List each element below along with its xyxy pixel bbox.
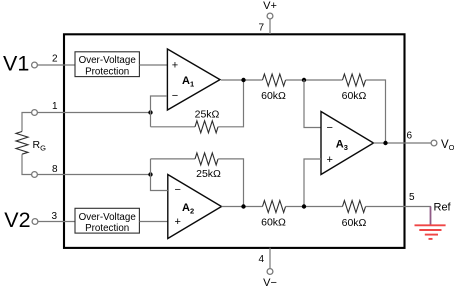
- svg-text:+: +: [172, 59, 178, 71]
- resistor 60k bottom-right: [343, 201, 366, 213]
- svg-text:60kΩ: 60kΩ: [261, 90, 286, 102]
- node A3 output: [383, 141, 387, 145]
- node A1 output: [241, 78, 245, 82]
- wire pin1: [37, 112, 150, 114]
- svg-text:V+: V+: [263, 0, 277, 12]
- resistor 60k top-left: [263, 74, 286, 86]
- svg-text:V2: V2: [4, 208, 30, 232]
- resistor 60k top-right: [343, 74, 366, 86]
- resistor 25k A1: [195, 121, 218, 133]
- svg-text:8: 8: [52, 164, 58, 175]
- op-amp A3: [321, 112, 374, 175]
- IC boundary box: [64, 34, 405, 248]
- svg-text:6: 6: [406, 131, 412, 142]
- wire A2 output: [222, 206, 263, 208]
- wire A3 noninverting input: [304, 159, 321, 207]
- node A2 output: [241, 204, 245, 208]
- svg-text:1: 1: [52, 101, 58, 112]
- svg-text:−: −: [327, 122, 333, 134]
- wire ref drop: [430, 207, 432, 226]
- svg-text:25kΩ: 25kΩ: [196, 168, 221, 180]
- wire RG top: [22, 113, 32, 132]
- node pin1 junction: [148, 110, 152, 114]
- wire 25k feedback left: [151, 126, 196, 128]
- wire A1 output: [221, 79, 263, 81]
- svg-text:V−: V−: [263, 277, 277, 289]
- svg-text:V1: V1: [3, 52, 29, 76]
- svg-text:60kΩ: 60kΩ: [342, 90, 367, 102]
- node X: [302, 78, 306, 82]
- pin 7 terminal V+: [267, 13, 273, 34]
- svg-text:60kΩ: 60kΩ: [261, 217, 286, 229]
- op-amp A1: [167, 49, 220, 110]
- wire A2 inverting input: [151, 159, 168, 191]
- wire A1 inverting input: [151, 96, 168, 127]
- svg-text:60kΩ: 60kΩ: [342, 217, 367, 229]
- svg-text:Protection: Protection: [85, 66, 129, 77]
- terminal VO: [431, 140, 437, 146]
- svg-text:25kΩ: 25kΩ: [195, 109, 220, 121]
- wire pin8: [37, 174, 150, 176]
- wire 25k feedback right: [218, 80, 243, 127]
- wire to node X: [286, 79, 343, 81]
- svg-text:−: −: [172, 90, 178, 102]
- terminal pin 1: [32, 110, 38, 116]
- terminal V2: [32, 219, 38, 225]
- resistor RG: [16, 132, 28, 155]
- wire 25k2 right: [218, 159, 243, 207]
- op-amp A2: [168, 175, 222, 239]
- wire OVP2 to A2 +: [139, 221, 167, 223]
- wire 60k to Ref: [366, 206, 431, 208]
- resistor 25k A2: [195, 153, 218, 165]
- svg-text:2: 2: [52, 54, 58, 65]
- wire pin3: [38, 221, 75, 223]
- ground Ref: [415, 225, 446, 239]
- wire RG bottom: [22, 154, 32, 174]
- wire pin2: [37, 64, 75, 66]
- svg-text:Ref: Ref: [434, 201, 452, 213]
- svg-text:Protection: Protection: [85, 223, 129, 234]
- wire OVP1 to A1 +: [139, 64, 167, 66]
- svg-text:Over-Voltage: Over-Voltage: [79, 55, 137, 66]
- node Y: [302, 204, 306, 208]
- svg-text:+: +: [175, 216, 181, 228]
- wire 25k2 left: [151, 158, 196, 160]
- svg-text:7: 7: [258, 23, 264, 34]
- terminal pin 8: [32, 172, 38, 178]
- node pin8 junction: [148, 172, 152, 176]
- over-voltage protection box 2: [75, 208, 139, 233]
- svg-text:−: −: [175, 184, 181, 196]
- terminal V1: [32, 62, 38, 68]
- pin 4 terminal V-: [267, 248, 273, 275]
- svg-text:4: 4: [258, 254, 264, 265]
- wire node X to A3 inverting input: [304, 80, 321, 128]
- svg-text:5: 5: [409, 192, 415, 203]
- svg-text:+: +: [327, 154, 333, 166]
- over-voltage protection box 1: [75, 52, 139, 77]
- wire to node Y: [286, 206, 343, 208]
- svg-text:Over-Voltage: Over-Voltage: [79, 212, 137, 223]
- wire 60k to A3 output node: [366, 80, 386, 143]
- wire A3 output to pin6: [374, 142, 432, 144]
- resistor 60k bottom-left: [263, 201, 286, 213]
- svg-text:3: 3: [51, 211, 57, 222]
